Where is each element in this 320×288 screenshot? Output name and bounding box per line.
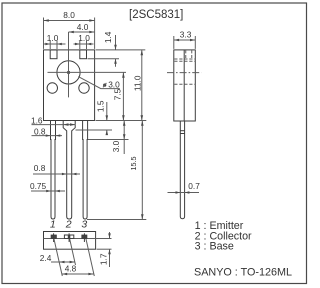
svg-text:15.5: 15.5 (129, 157, 138, 171)
svg-text:0.8: 0.8 (34, 163, 46, 173)
dim 1.0 right: line + outside arrows (74, 43, 94, 45)
ext line pin step (3.0) (88, 139, 129, 141)
svg-text:SANYO : TO-126ML: SANYO : TO-126ML (194, 266, 292, 278)
oblique ext pin2 (70, 239, 76, 265)
ext lines tab right (79, 41, 81, 49)
svg-text:11.0: 11.0 (133, 75, 143, 91)
hole centerline vertical (68, 32, 70, 97)
side view inner line (183, 50, 185, 121)
svg-text:1: 1 (50, 219, 56, 231)
dim 0.8 (pin2 width) (33, 173, 80, 175)
dim 1.5: outside arrows (106, 102, 108, 121)
svg-text:0.8: 0.8 (34, 126, 46, 136)
phi 3.0 label (103, 79, 120, 89)
front view: package body (44, 50, 95, 121)
ext lines 3.3 (173, 36, 175, 49)
ext line pin tips (87, 219, 146, 221)
svg-text:1.0: 1.0 (78, 33, 90, 43)
dim 3.0 line (123, 121, 125, 155)
pin1 cross-section (51, 233, 56, 242)
svg-text:7.5: 7.5 (112, 88, 122, 100)
svg-text:8.0: 8.0 (63, 10, 75, 20)
side hidden line hole top (174, 60, 195, 62)
svg-text:0.7: 0.7 (188, 181, 200, 191)
ext line body bottom right (96, 120, 147, 122)
dim 0.7: outside arrows (168, 192, 200, 194)
pin 2 (center) with 1.6 shoulder (63, 121, 75, 220)
svg-text:3.0: 3.0 (108, 79, 120, 89)
tab slot right (1.0) (80, 50, 87, 59)
dim 1.6 (pin2 shoulder) (32, 124, 76, 126)
small circle left (47, 83, 57, 93)
svg-text:3 : Base: 3 : Base (195, 241, 234, 253)
tab slot left (1.0) (50, 50, 57, 59)
side center dash-dot line (167, 72, 201, 74)
dim 11.0 line (141, 50, 143, 121)
side pin (180, 121, 184, 219)
svg-text:3: 3 (81, 219, 87, 231)
ext lines tab left (49, 41, 51, 49)
side pin bend ticks (180, 130, 184, 132)
dim 0.8 (pin1 width) (32, 135, 63, 137)
svg-text:[2SC5831]: [2SC5831] (129, 9, 183, 21)
dim 1.7 outside arrows (109, 232, 111, 239)
svg-text:1.6: 1.6 (31, 115, 43, 125)
dim 2.4 line (51, 261, 75, 263)
mounting hole (3.0 dia) (57, 61, 80, 84)
svg-text:4.8: 4.8 (65, 264, 77, 274)
dim 15.5 line (141, 121, 143, 220)
pin2 cross-section (wide, two squares) (64, 233, 73, 242)
ext line tab bottom right (1.4) (88, 58, 120, 60)
dim 8.0 line (44, 20, 95, 22)
svg-text:1.4: 1.4 (103, 31, 113, 43)
side hidden line tab bottom (174, 58, 195, 60)
svg-text:2.4: 2.4 (40, 253, 52, 263)
oblique ext pin3 (86, 239, 94, 276)
side hidden tab verticals (185, 50, 187, 58)
pin3 cross-section (82, 233, 87, 242)
hole center dot (67, 71, 70, 74)
svg-text:4.0: 4.0 (77, 22, 89, 32)
ext line body right edge up (94, 18, 96, 49)
bottom view outline (44, 232, 96, 250)
leader line with shoulder to hole dia label (78, 77, 120, 89)
pin 1 (left) with width step (51, 121, 56, 220)
svg-text:1.0: 1.0 (47, 33, 59, 43)
svg-text:0.75: 0.75 (30, 181, 47, 191)
svg-text:1.7: 1.7 (98, 253, 108, 265)
dim 1.4: vertical outside arrows (115, 35, 117, 50)
ext line pin2 chamfer (1.5) (76, 129, 113, 131)
ext line bottom view lower right (1.7) (97, 248, 112, 250)
ext line top edge right (96, 49, 146, 51)
small circle right (79, 83, 89, 93)
dim 7.5 line (122, 72, 124, 120)
svg-text:3.0: 3.0 (111, 140, 121, 152)
dim 4.0 line (69, 31, 95, 33)
dim 1.0 left: line + outside arrows (44, 43, 66, 45)
side view body (174, 50, 196, 121)
dim 0.75 (pin1 tip width) (31, 190, 65, 192)
hole centerline horizontal (48, 71, 127, 73)
svg-text:1.5: 1.5 (95, 100, 105, 112)
svg-text:3.3: 3.3 (180, 30, 192, 40)
oblique ext pin1 (54, 239, 62, 276)
svg-text:2: 2 (65, 219, 72, 231)
dim 4.8 line (62, 273, 94, 275)
bottom view mid line (44, 238, 112, 240)
ext line body left edge up (43, 18, 45, 49)
side hidden line hole bottom (174, 83, 195, 85)
dim 3.3 line (174, 39, 196, 41)
pin 3 (right) with width step (83, 121, 88, 220)
